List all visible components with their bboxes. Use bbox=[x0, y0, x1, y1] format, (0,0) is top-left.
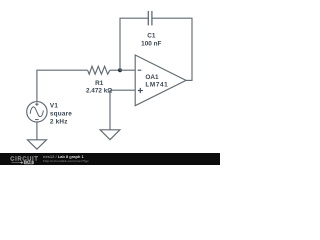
svg-text:2 kHz: 2 kHz bbox=[50, 119, 68, 126]
voltage source V1 bbox=[27, 102, 47, 122]
footer url text bbox=[43, 159, 89, 163]
wire: feedback top left horizontal bbox=[120, 17, 148, 19]
svg-text:2.472 kΩ: 2.472 kΩ bbox=[86, 87, 112, 94]
wire: R1 to inverting node bbox=[110, 69, 120, 71]
ground (right, at non-inverting input) bbox=[100, 130, 120, 140]
svg-text:square: square bbox=[50, 111, 72, 118]
wire: V1 bottom to ground bbox=[36, 122, 38, 140]
resistor R1 bbox=[88, 66, 110, 74]
capacitor C1 bbox=[148, 11, 152, 26]
svg-text:V1: V1 bbox=[50, 102, 58, 109]
wire: node to op-amp inverting input bbox=[120, 69, 135, 71]
wire: feedback top right horizontal bbox=[152, 17, 192, 19]
svg-text:LAB: LAB bbox=[25, 161, 33, 165]
footer bar bbox=[0, 153, 220, 165]
op-amp inverting input marker bbox=[138, 69, 142, 71]
V1 labels bbox=[50, 102, 72, 125]
wire: feedback right vertical bbox=[191, 18, 193, 80]
svg-text:C1: C1 bbox=[147, 33, 156, 40]
wire: non-inverting input down to ground bbox=[109, 90, 111, 130]
svg-text:LM741: LM741 bbox=[145, 82, 168, 89]
op-amp OA1 triangle bbox=[135, 55, 186, 106]
footer title text bbox=[43, 154, 84, 159]
op-amp labels OA1 LM741 bbox=[145, 74, 168, 89]
wire: feedback left vertical bbox=[119, 18, 121, 70]
svg-text:R1: R1 bbox=[95, 80, 104, 87]
wire: V1 top terminal up and right to R1 bbox=[37, 70, 88, 102]
CircuitLab logo bbox=[10, 156, 38, 164]
wire: non-inverting input horizontal bbox=[110, 89, 135, 91]
op-amp non-inverting input marker bbox=[138, 88, 143, 93]
svg-text:OA1: OA1 bbox=[145, 74, 159, 81]
wire: op-amp output bbox=[186, 79, 193, 81]
R1 value labels bbox=[86, 80, 112, 94]
ground (left, below V1) bbox=[27, 140, 46, 149]
svg-text:100 nF: 100 nF bbox=[141, 41, 161, 48]
node: inverting input junction bbox=[118, 68, 122, 72]
C1 value labels bbox=[141, 33, 161, 48]
svg-text:http://circuitlab.com/cne/7fgv: http://circuitlab.com/cne/7fgv bbox=[43, 159, 89, 163]
